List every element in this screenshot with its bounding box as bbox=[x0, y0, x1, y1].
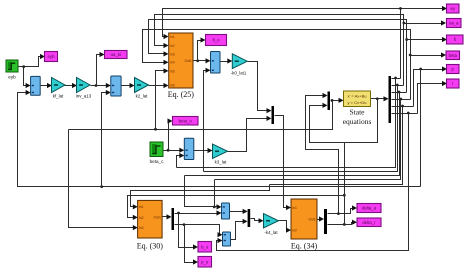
gain kf_lat bbox=[52, 78, 66, 93]
wire down to p_o tag bbox=[185, 225, 194, 263]
junction out4 feedback down bbox=[399, 98, 402, 101]
arrowhead into Eq34 In1 bbox=[286, 205, 291, 210]
label -k4_lat bbox=[264, 230, 278, 235]
junction r feedback bbox=[407, 112, 410, 115]
junction riser to Eq25 In5 bbox=[154, 128, 157, 131]
arrowhead into k4 mux in1 bbox=[243, 209, 248, 214]
wire -k4_lat to Eq34 In2 bbox=[279, 221, 288, 231]
wire feedback bundle line y175.8 bbox=[185, 93, 400, 176]
arrowhead into fi tag bbox=[442, 37, 447, 42]
junction p feedback bbox=[419, 68, 422, 71]
arrowhead into k4 mux in2 bbox=[243, 219, 248, 224]
label k3_lat bbox=[215, 160, 227, 165]
wire branch up to eyb goto tag bbox=[24, 57, 41, 67]
arrowhead into fi_o tag bbox=[201, 37, 206, 42]
arrowhead into kf_lat bbox=[47, 83, 52, 88]
wire feedback bundle line y171.7 bbox=[204, 86, 398, 172]
wire riser to Eq25 In5 bbox=[156, 71, 165, 130]
goto tag p_o bbox=[198, 257, 212, 268]
wire to beta tag bbox=[411, 55, 442, 57]
junction to p_o tag bbox=[183, 223, 186, 226]
wire down to b_o tag bbox=[179, 214, 194, 248]
arrowhead into p tag bbox=[442, 66, 447, 71]
label k2_lat bbox=[136, 94, 148, 99]
arrowhead into Sum5 in2 bbox=[217, 210, 222, 215]
gain k3_lat bbox=[213, 144, 228, 159]
svg-text:oa_ki: oa_ki bbox=[111, 52, 121, 57]
arrowhead into -k0_lat1 bbox=[227, 58, 232, 63]
wire mux to -k4_lat bbox=[251, 219, 260, 221]
arrowhead into Eq25 In4 bbox=[164, 60, 169, 65]
label Eq. (25) bbox=[168, 90, 195, 99]
svg-text:Out1: Out1 bbox=[184, 59, 191, 63]
wire mux A output down to Eq34 In1 bbox=[275, 116, 288, 208]
svg-text:fi: fi bbox=[454, 37, 456, 42]
wire Sum2 to k2_lat bbox=[122, 85, 131, 87]
arrowhead into Sum6 in1 bbox=[218, 232, 223, 237]
goto tag beta_o bbox=[173, 117, 199, 126]
arrowhead into Sum1 in2 bbox=[26, 90, 31, 95]
svg-text:In3: In3 bbox=[170, 52, 175, 56]
svg-text:k3_lat: k3_lat bbox=[215, 160, 227, 165]
svg-text:Out1: Out1 bbox=[308, 217, 315, 221]
wire Sum6 up to mux in2 bbox=[231, 222, 244, 240]
wire u feedback line y129 bbox=[69, 101, 333, 130]
junction after inv_a13 bbox=[95, 84, 98, 87]
wire beta_c to Sum4 in1 bbox=[164, 150, 181, 152]
arrowhead into Sum1 in1 bbox=[26, 83, 31, 88]
goto tag p bbox=[447, 65, 460, 74]
wire to Eq30 In2 bbox=[128, 196, 345, 218]
svg-text:In4: In4 bbox=[170, 61, 175, 65]
wire state equations to demux bbox=[371, 98, 385, 100]
wire k3_lat up to mux A in2 bbox=[228, 119, 268, 152]
junction out2 feedback down bbox=[396, 84, 399, 87]
wire Sum3 to -k0_lat1 bbox=[221, 61, 229, 63]
label State equations bbox=[343, 108, 372, 127]
mux before -k4_lat bbox=[248, 209, 251, 227]
goto tag fi_o bbox=[206, 35, 227, 46]
wire branch up to oa_ki tag bbox=[97, 55, 101, 86]
arrowhead into Sum6 in2 bbox=[218, 238, 223, 243]
subsystem Eq. (30) bbox=[138, 200, 163, 238]
svg-text:fi_o: fi_o bbox=[213, 38, 221, 43]
svg-text:In6: In6 bbox=[170, 83, 175, 87]
wire riser down to Sum5 in1 bbox=[185, 176, 218, 207]
label Eq. (34) bbox=[291, 242, 318, 251]
svg-text:delta_r: delta_r bbox=[362, 220, 376, 225]
svg-text:eyb: eyb bbox=[48, 54, 56, 59]
svg-text:Eq. (25): Eq. (25) bbox=[168, 90, 195, 99]
wire delta_a up to mux B in1 bbox=[306, 96, 339, 214]
wire ey feedback over top to Eq25 In1 bbox=[163, 9, 401, 79]
svg-text:k2_lat: k2_lat bbox=[136, 94, 148, 99]
step source eyb bbox=[6, 60, 18, 80]
arrowhead into Eq30 In1 bbox=[133, 204, 138, 209]
svg-text:p_o: p_o bbox=[201, 259, 209, 264]
junction out3 feedback down bbox=[398, 91, 401, 94]
junction state output branch bbox=[376, 97, 379, 100]
svg-text:Eq. (34): Eq. (34) bbox=[291, 242, 318, 251]
arrowhead into p_o tag bbox=[193, 259, 198, 264]
arrowhead into beta tag bbox=[441, 52, 446, 57]
junction beta_o branch bbox=[167, 149, 170, 152]
mux A bbox=[272, 106, 275, 124]
wire -k0_lat1 to mux A in1 bbox=[248, 62, 268, 111]
arrowhead into delta_a tag bbox=[352, 205, 357, 210]
junction to Sum2 in2 bbox=[100, 185, 103, 188]
demux after Eq34 bbox=[324, 209, 327, 234]
arrowhead into r tag bbox=[442, 81, 447, 86]
wire Eq25 Out1 to Sum3 in1 bbox=[194, 60, 207, 62]
wire demux out2 bbox=[392, 85, 404, 87]
arrowhead into oa_a tag bbox=[441, 20, 446, 25]
arrowhead into delta_r tag bbox=[352, 220, 357, 225]
wire k2_lat to Eq25 In6 bbox=[149, 85, 165, 87]
junction sum5 in1 bbox=[213, 206, 216, 209]
wire r feedback around bottom to Sum6 in2 bbox=[217, 114, 409, 251]
wire mux B to state block bbox=[331, 100, 339, 102]
junction out5 feedback down bbox=[401, 105, 404, 108]
demux after Eq30 bbox=[172, 208, 175, 230]
arrowhead into Sum3 in1 bbox=[206, 58, 211, 63]
svg-text:In5: In5 bbox=[170, 69, 175, 73]
demux state outputs bbox=[389, 76, 392, 123]
label Eq. (30) bbox=[137, 242, 164, 251]
wire to ey tag bbox=[401, 8, 443, 10]
svg-text:kf_lat: kf_lat bbox=[53, 94, 64, 99]
junction fi_o branch bbox=[196, 59, 199, 62]
wire demux30 out2 to Sum6 in1 bbox=[175, 225, 220, 235]
wire demux out1 bbox=[392, 78, 401, 80]
wire demux out3 bbox=[392, 92, 407, 94]
step source beta_c bbox=[150, 142, 164, 164]
wire p feedback down right edge bbox=[420, 70, 422, 187]
svg-text:Out1: Out1 bbox=[154, 215, 161, 219]
arrowhead into mux B in2 bbox=[323, 103, 328, 108]
state-space block bbox=[344, 91, 371, 107]
svg-text:Eq. (30): Eq. (30) bbox=[137, 242, 164, 251]
wire Sum5 to mux in1 bbox=[230, 211, 244, 213]
junction ey top corner bbox=[399, 7, 402, 10]
label -k0_lat1 bbox=[231, 71, 247, 76]
wire branch up to beta_o tag bbox=[169, 122, 170, 151]
svg-text:y = Cx+Du: y = Cx+Du bbox=[348, 100, 367, 105]
svg-text:inv_a13: inv_a13 bbox=[76, 94, 92, 99]
wire Eq34 Out1 to demux34 bbox=[318, 219, 321, 221]
wire eyb output to Sum1 in1 bbox=[19, 67, 27, 86]
wire feedback bundle line y179.9 bbox=[215, 100, 401, 180]
arrowhead into Sum3 in2 bbox=[206, 68, 211, 73]
wire Sum4 to k3_lat bbox=[194, 150, 209, 152]
arrowhead into k2_lat bbox=[130, 83, 135, 88]
goto tag b_o bbox=[198, 242, 212, 253]
arrowhead into eyb tag bbox=[40, 54, 45, 59]
label kf_lat bbox=[53, 94, 64, 99]
wire beta feedback over top to Eq25 In4 bbox=[143, 30, 411, 100]
wire demux out6 bbox=[392, 113, 418, 115]
sum block Sum4 bbox=[184, 138, 194, 159]
junction out1 feedback down bbox=[394, 77, 397, 80]
arrowhead into -k4_lat bbox=[259, 218, 264, 223]
arrowhead into inv_a13 bbox=[72, 83, 77, 88]
junction oa_a tag branch bbox=[403, 22, 406, 25]
arrowhead into ey tag bbox=[442, 6, 447, 11]
svg-text:eyb: eyb bbox=[8, 75, 16, 80]
svg-text:-k4_lat: -k4_lat bbox=[264, 230, 278, 235]
svg-text:beta_c: beta_c bbox=[150, 159, 164, 164]
svg-text:In2: In2 bbox=[170, 44, 175, 48]
junction beta tag branch bbox=[409, 54, 412, 57]
junction delta_r riser bbox=[343, 223, 346, 226]
gain -k0_lat1 bbox=[232, 54, 247, 69]
arrowhead into demux30 bbox=[167, 214, 172, 219]
label inv_a13 bbox=[76, 94, 92, 99]
wire oa_a feedback over top to Eq25 In2 bbox=[155, 15, 404, 86]
mux B bbox=[328, 92, 331, 111]
wire up to r tag bbox=[418, 84, 443, 114]
wire riser to Sum3 in2 bbox=[204, 71, 207, 172]
svg-text:delta_a: delta_a bbox=[362, 206, 377, 211]
svg-text:In1: In1 bbox=[292, 206, 297, 210]
wire feedback bundle line y184.1 bbox=[270, 107, 403, 185]
goto tag delta_a bbox=[357, 204, 381, 213]
wire feedback bundle line y167.6 bbox=[177, 79, 396, 168]
wire riser to Sum2 in2 bbox=[102, 93, 107, 187]
gain k2_lat bbox=[135, 78, 149, 93]
wire to fi tag bbox=[407, 39, 443, 41]
arrowhead into Sum5 in1 bbox=[217, 204, 222, 209]
junction on riser for Eq30 In2 bbox=[343, 194, 346, 197]
gain -k4_lat bbox=[264, 214, 279, 229]
arrowhead into Eq25 In1 bbox=[164, 34, 169, 39]
arrowhead into Sum4 in1 bbox=[179, 148, 184, 153]
goto tag fi bbox=[447, 35, 464, 44]
svg-text:In1: In1 bbox=[139, 205, 144, 209]
goto tag eyb bbox=[45, 52, 58, 62]
wire demux out4 bbox=[392, 99, 411, 101]
wire long feedback line to Sum1 in2 bbox=[18, 93, 421, 187]
svg-text:beta_o: beta_o bbox=[179, 118, 193, 123]
junction u branch bbox=[331, 99, 334, 102]
wire delta_r up to mux B in2 bbox=[310, 106, 345, 225]
wire bundle down to Eq30 In1 bbox=[131, 185, 270, 207]
wire demux34 out2 to delta_r tag bbox=[328, 223, 353, 225]
gain inv_a13 bbox=[77, 78, 91, 93]
sum block Sum3 bbox=[211, 52, 221, 74]
arrowhead into Eq25 In3 bbox=[164, 51, 169, 56]
svg-text:oa_a: oa_a bbox=[449, 21, 459, 26]
subsystem Eq. (34) bbox=[291, 199, 317, 239]
goto tag oa_a bbox=[447, 19, 462, 28]
wire state output branch down bbox=[345, 99, 378, 143]
arrowhead into Sum2 in2 bbox=[106, 90, 111, 95]
svg-text:equations: equations bbox=[343, 117, 372, 126]
wire demux30 out1 to Sum5 in2 bbox=[175, 213, 218, 215]
wire up to p tag bbox=[414, 70, 443, 107]
junction eyb branch bbox=[22, 65, 25, 68]
arrowhead into Sum4 in2 bbox=[179, 153, 184, 158]
goto tag r bbox=[447, 79, 460, 88]
goto tag beta bbox=[446, 51, 460, 60]
wire down-left to Eq30 In3 bbox=[69, 130, 134, 228]
svg-text:beta: beta bbox=[449, 53, 458, 58]
goto tag delta_r bbox=[357, 218, 381, 227]
arrowhead into mux B in1 bbox=[323, 93, 328, 98]
arrowhead into beta_o tag bbox=[168, 118, 173, 123]
wire fi feedback over top to Eq25 In3 bbox=[149, 20, 407, 93]
wire inv_a13 to Sum2 in1 bbox=[91, 85, 107, 87]
wire to oa_a tag bbox=[404, 23, 442, 25]
wire riser join sum5 in1 bbox=[214, 180, 216, 207]
arrowhead into demux34 bbox=[319, 216, 324, 221]
svg-text:In1: In1 bbox=[170, 35, 175, 39]
svg-text:x' = Ax+Bu: x' = Ax+Bu bbox=[348, 93, 367, 98]
svg-text:-k0_lat1: -k0_lat1 bbox=[231, 71, 247, 76]
svg-text:In2: In2 bbox=[139, 216, 144, 220]
svg-text:State: State bbox=[350, 108, 366, 117]
arrowhead into Eq30 In3 bbox=[133, 225, 138, 230]
svg-text:In3: In3 bbox=[139, 226, 144, 230]
wire kf_lat to inv_a13 bbox=[65, 85, 73, 87]
wire branch up to fi_o tag bbox=[198, 41, 202, 61]
wire bundle up to Sum4 in2 bbox=[177, 156, 181, 168]
junction fi tag branch bbox=[405, 38, 408, 41]
goto tag oa_ki bbox=[105, 51, 128, 59]
arrowhead into Eq34 In2 bbox=[286, 228, 291, 233]
arrowhead into Sum2 in1 bbox=[106, 83, 111, 88]
arrowhead into mux A in1 bbox=[267, 108, 272, 113]
sum block Sum6 bbox=[223, 232, 231, 246]
sum block Sum2 bbox=[111, 76, 121, 96]
arrowhead into oa_ki tag bbox=[100, 52, 105, 57]
wire Eq30 Out1 to demux bbox=[163, 216, 168, 218]
wire demux out5 bbox=[392, 106, 414, 108]
arrowhead into k3_lat bbox=[208, 148, 213, 153]
arrowhead into Eq30 In2 bbox=[133, 215, 138, 220]
wire demux34 out1 to delta_a tag bbox=[328, 209, 353, 214]
goto tag ey bbox=[447, 4, 460, 13]
arrowhead into Eq25 In2 bbox=[164, 43, 169, 48]
arrowhead into Eq25 In5 bbox=[164, 68, 169, 73]
wire Sum1 to kf_lat bbox=[41, 85, 48, 87]
arrowhead into Eq25 In6 bbox=[164, 83, 169, 88]
arrowhead into state equations bbox=[339, 98, 344, 103]
arrowhead into mux A in2 bbox=[267, 116, 272, 121]
sum block Sum1 bbox=[31, 76, 41, 95]
svg-text:In2: In2 bbox=[292, 229, 297, 233]
sum block Sum5 bbox=[222, 203, 230, 219]
junction to b_o tag bbox=[177, 212, 180, 215]
junction delta_a riser bbox=[337, 212, 340, 215]
arrowhead into demux bbox=[384, 96, 389, 101]
svg-text:b_o: b_o bbox=[201, 244, 209, 249]
arrowhead into b_o tag bbox=[193, 244, 198, 249]
subsystem Eq. (25) bbox=[169, 33, 193, 88]
